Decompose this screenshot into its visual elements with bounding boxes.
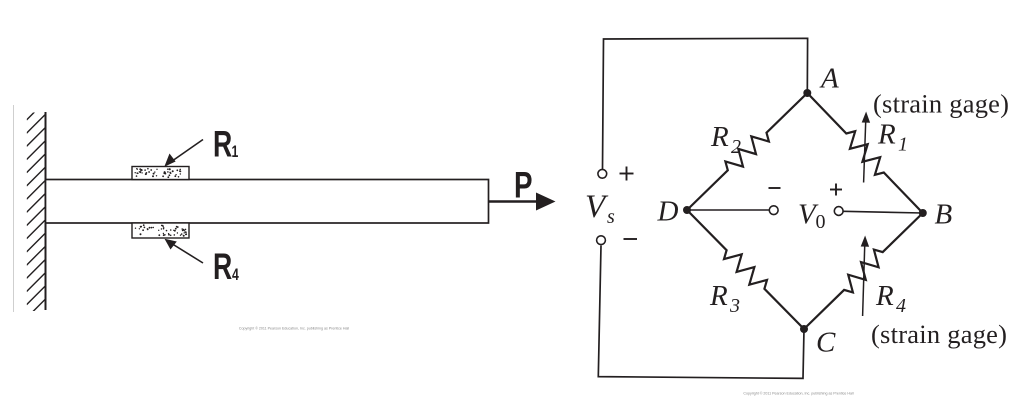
label R1 (beam) xyxy=(213,123,238,164)
wire V0 plus terminal to node B xyxy=(843,211,923,213)
label R2 xyxy=(710,121,741,158)
wire node D to V0 minus terminal xyxy=(687,209,769,211)
svg-text:B: B xyxy=(935,199,953,231)
strain gage arrow through R1 xyxy=(862,112,870,183)
label R4 (bridge) xyxy=(875,280,906,317)
svg-text:1: 1 xyxy=(898,134,908,156)
wire Vs+ up and across to node A xyxy=(603,38,808,169)
terminal + of V0 xyxy=(834,207,843,216)
svg-text:R: R xyxy=(709,280,728,312)
faint scan artifact line xyxy=(13,105,15,312)
wall line xyxy=(45,112,47,310)
strain gage R1 on top of beam xyxy=(132,167,189,180)
svg-text:s: s xyxy=(607,206,615,228)
svg-text:R: R xyxy=(877,119,896,151)
plus sign of Vs xyxy=(620,167,634,181)
label R4 (beam) xyxy=(213,246,239,287)
svg-text:Copyright © 2011 Pearson Educa: Copyright © 2011 Pearson Education, Inc.… xyxy=(239,327,349,331)
terminal - of V0 xyxy=(769,206,778,215)
wire Vs- down and across to node C xyxy=(598,246,804,379)
plus sign of V0 xyxy=(830,184,842,196)
minus sign of V0 xyxy=(769,187,781,189)
svg-text:1: 1 xyxy=(232,143,239,161)
svg-text:(strain gage): (strain gage) xyxy=(871,319,1007,349)
svg-text:(strain gage): (strain gage) xyxy=(873,89,1009,119)
label V0 xyxy=(798,199,826,234)
svg-text:4: 4 xyxy=(232,266,239,284)
resistor R2 (branch D to A) xyxy=(687,93,807,210)
force arrow P xyxy=(489,193,556,211)
arrow to R4 xyxy=(165,239,204,263)
svg-text:4: 4 xyxy=(896,295,906,317)
node B xyxy=(919,209,927,217)
wall hatching (fixed support) xyxy=(27,101,46,331)
svg-text:V: V xyxy=(585,189,609,225)
label Vs xyxy=(585,189,615,228)
svg-text:D: D xyxy=(657,196,679,228)
label R3 xyxy=(709,280,740,317)
svg-text:P: P xyxy=(514,164,533,206)
resistor R3 (branch D to C) xyxy=(687,210,804,329)
strain gage arrow through R4 xyxy=(861,236,869,317)
terminal + of Vs xyxy=(598,169,607,178)
resistor R1 (branch A to B, strain gage) xyxy=(807,93,923,213)
node C xyxy=(800,325,808,333)
node D xyxy=(683,206,691,214)
svg-text:0: 0 xyxy=(816,211,826,233)
svg-text:R: R xyxy=(213,246,232,287)
minus sign of Vs xyxy=(624,238,638,240)
terminal - of Vs xyxy=(597,236,606,245)
label R1 (bridge) xyxy=(877,119,908,156)
beam (cantilever) xyxy=(46,180,489,224)
node A xyxy=(803,89,811,97)
arrow to R1 xyxy=(164,140,203,167)
resistor R4 (branch C to B, strain gage) xyxy=(804,213,923,329)
svg-text:3: 3 xyxy=(729,295,740,317)
svg-text:2: 2 xyxy=(731,136,741,158)
svg-text:R: R xyxy=(213,123,232,164)
svg-text:R: R xyxy=(710,121,729,153)
svg-text:Copyright © 2011 Pearson Educa: Copyright © 2011 Pearson Education, Inc.… xyxy=(743,392,853,396)
strain gage R4 on bottom of beam xyxy=(132,223,189,238)
svg-text:R: R xyxy=(875,280,894,312)
svg-text:A: A xyxy=(819,63,839,95)
svg-text:C: C xyxy=(816,327,836,359)
